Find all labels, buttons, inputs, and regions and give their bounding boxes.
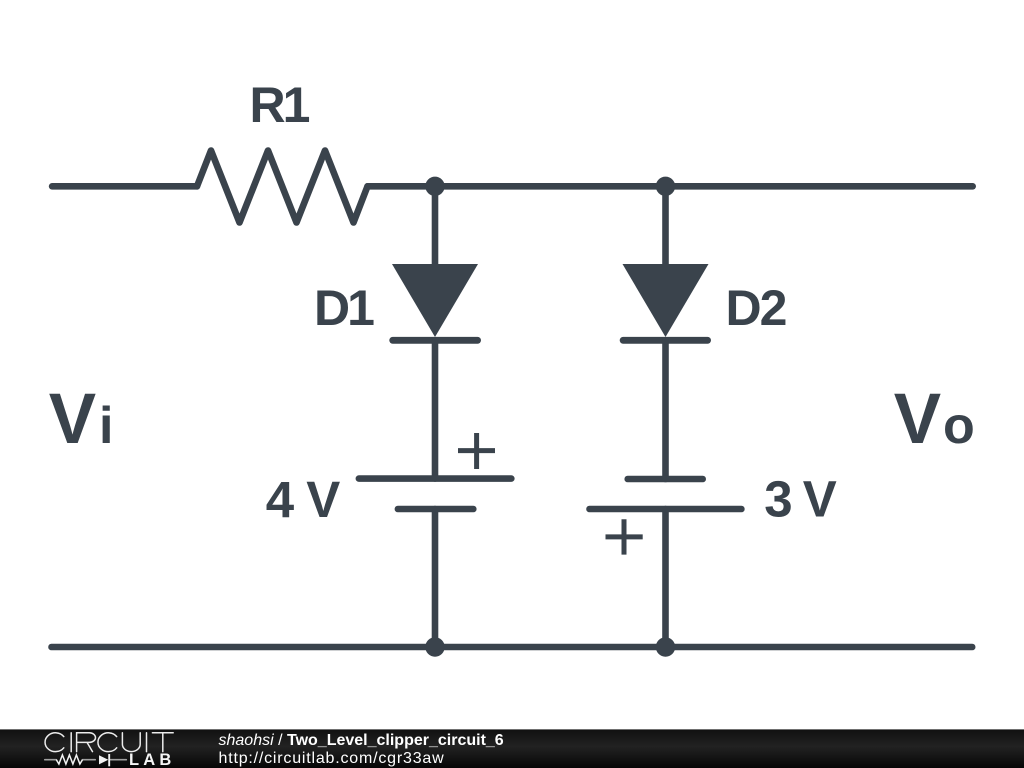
node A junction dot bbox=[425, 177, 444, 196]
node C junction dot bbox=[425, 637, 444, 656]
diode D2 cathode bar bbox=[623, 337, 708, 344]
svg-text:4 V: 4 V bbox=[266, 471, 341, 528]
svg-text:shaohsi / Two_Level_clipper_ci: shaohsi / Two_Level_clipper_circuit_6 bbox=[219, 732, 504, 749]
diode D2 triangle bbox=[623, 264, 709, 337]
wire: Vi input to R1 bbox=[52, 183, 197, 190]
wire: D2 cathode to battery V2 bbox=[662, 340, 669, 479]
CircuitLab logo diode symbol bbox=[99, 755, 108, 764]
battery V1 plus sign bbox=[458, 433, 495, 469]
wire: node B to Vo output bbox=[666, 183, 973, 190]
battery V2 negative plate (short) bbox=[628, 476, 703, 483]
svg-text:D1: D1 bbox=[314, 280, 374, 336]
footer bar bbox=[0, 729, 1024, 768]
resistor R1 bbox=[197, 151, 368, 223]
CircuitLab logo wire segments bbox=[45, 759, 127, 761]
bottom rail wire bbox=[52, 644, 973, 651]
CircuitLab logo diode cathode bar bbox=[108, 754, 110, 766]
node D junction dot bbox=[656, 637, 675, 656]
CircuitLab logo word CIRCUIT bbox=[45, 733, 64, 752]
svg-text:R1: R1 bbox=[250, 77, 310, 133]
wire: battery V2 to bottom rail bbox=[662, 509, 669, 647]
wire: D1 cathode to battery V1 bbox=[432, 340, 439, 478]
svg-text:Vi: Vi bbox=[49, 380, 114, 459]
node B junction dot bbox=[656, 177, 675, 196]
battery V1 negative plate (short) bbox=[398, 506, 473, 513]
svg-text:D2: D2 bbox=[726, 280, 786, 336]
svg-text:Vo: Vo bbox=[894, 380, 975, 459]
battery V2 plus sign bbox=[606, 519, 643, 554]
svg-text:http://circuitlab.com/cgr33aw: http://circuitlab.com/cgr33aw bbox=[219, 750, 445, 767]
battery V2 positive plate (long) bbox=[590, 506, 742, 513]
diode D1 triangle bbox=[392, 264, 478, 337]
wire: D2 anode lead bbox=[662, 186, 669, 270]
wire: node A to node B bbox=[435, 183, 666, 190]
wire: battery V1 to bottom rail bbox=[432, 509, 439, 647]
CircuitLab logo resistor zigzag bbox=[56, 755, 82, 764]
svg-text:3 V: 3 V bbox=[764, 471, 837, 528]
battery V1 positive plate (long) bbox=[359, 475, 511, 482]
diode D1 cathode bar bbox=[393, 337, 478, 344]
wire: D1 anode lead bbox=[432, 186, 439, 270]
wire: R1 to node A bbox=[368, 183, 436, 190]
svg-text:LAB: LAB bbox=[129, 751, 176, 768]
